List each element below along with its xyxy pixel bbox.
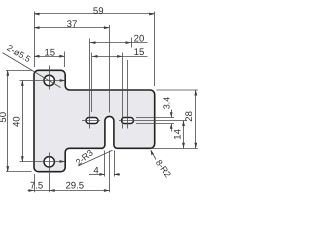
svg-text:14: 14 bbox=[172, 128, 183, 139]
ext line left slot pair a bbox=[89, 39, 91, 129]
dim line 15 right with tail bbox=[92, 56, 148, 58]
svg-text:20: 20 bbox=[134, 34, 145, 45]
arrow leader tick bbox=[60, 79, 66, 82]
dim line 59 bbox=[34, 13, 155, 15]
arrows 4 (outside inward) bbox=[99, 173, 105, 176]
dim line 14 bbox=[183, 121, 185, 149]
ext line 50 bottom bbox=[6, 171, 32, 173]
dim line 28 bbox=[195, 90, 197, 148]
arrows 50 bbox=[6, 70, 9, 76]
dim line 37 bbox=[34, 27, 110, 29]
dim line 3.4 lower bbox=[171, 124, 173, 132]
hole bottom 5.5 bbox=[44, 157, 54, 167]
arrows 15 right bbox=[92, 55, 98, 58]
svg-text:37: 37 bbox=[67, 19, 78, 30]
ext line notch left edge bottom bbox=[104, 151, 106, 177]
slot right ext bottom h bbox=[136, 123, 174, 125]
svg-text:50: 50 bbox=[0, 112, 9, 123]
arrows 40 bbox=[21, 80, 24, 86]
svg-text:8-R2: 8-R2 bbox=[154, 158, 173, 179]
centerline top hole v bbox=[49, 66, 51, 90]
centerline bottom hole v + ext down bbox=[49, 153, 51, 193]
ext line notch center vertical bbox=[109, 25, 111, 113]
svg-text:29.5: 29.5 bbox=[65, 181, 84, 192]
arrows 59 bbox=[34, 13, 40, 16]
svg-text:3.4: 3.4 bbox=[161, 97, 171, 109]
slot right bbox=[122, 118, 134, 124]
ext line 15 left bbox=[64, 52, 66, 68]
ext line band top right bbox=[157, 89, 198, 91]
slot right centerline h long bbox=[119, 120, 186, 122]
leader 2-R3 bbox=[78, 150, 113, 166]
dim line 4 right segment bbox=[114, 174, 120, 176]
hole top 5.5 bbox=[44, 75, 54, 85]
arrows 37 bbox=[34, 26, 40, 29]
centerline right slot vertical bbox=[127, 60, 129, 129]
svg-text:59: 59 bbox=[93, 6, 104, 17]
arrows 20 bbox=[90, 41, 96, 44]
svg-text:40: 40 bbox=[11, 116, 22, 127]
svg-text:2-R3: 2-R3 bbox=[74, 148, 95, 168]
ext line left slot pair b bbox=[91, 53, 93, 113]
part body (bracket outline) bbox=[34, 70, 155, 171]
ext line part right top bbox=[154, 12, 156, 87]
ext line part left top bbox=[34, 12, 36, 68]
leader 8-R2 bbox=[151, 150, 156, 159]
dim line 40 bbox=[22, 80, 24, 162]
ext line 50 top bbox=[6, 70, 32, 72]
svg-text:15: 15 bbox=[134, 47, 145, 58]
svg-text:4: 4 bbox=[93, 165, 99, 176]
ext line 40 top (hole centerline h) bbox=[20, 80, 66, 82]
ext line band bottom right bbox=[152, 148, 198, 150]
dim line 7.5 29.5 bbox=[28, 190, 110, 192]
arrows 15 left bbox=[34, 55, 40, 58]
ext line part left bottom bbox=[34, 174, 36, 192]
ext line right slot 15 bbox=[122, 53, 124, 129]
svg-text:7.5: 7.5 bbox=[30, 181, 43, 192]
arrows 7.5 / 29.5 bbox=[29, 189, 35, 192]
slot left centerline h bbox=[82, 120, 100, 122]
ext line notch center bottom bbox=[109, 151, 111, 193]
dim line 3.4 upper (outside arrows) bbox=[171, 110, 173, 118]
dim line 4 left segment bbox=[89, 174, 105, 176]
leader 2-phi5.5 bbox=[3, 53, 61, 88]
slot left bbox=[86, 118, 98, 124]
dim line 50 bbox=[7, 70, 9, 171]
ext stub 20 right bbox=[131, 38, 133, 48]
dim line 20 with tail bbox=[90, 42, 148, 44]
ext line 40 bottom (hole centerline h) bbox=[20, 161, 65, 163]
arrows 14 bbox=[182, 121, 185, 127]
arrows 3.4 (outside inward) bbox=[170, 112, 173, 117]
svg-text:2-ø5.5: 2-ø5.5 bbox=[5, 43, 32, 65]
dim line 15 left bbox=[34, 56, 65, 58]
arrow leader 8-R2 tip bbox=[151, 150, 154, 156]
arrows 28 bbox=[194, 90, 197, 96]
svg-text:15: 15 bbox=[44, 47, 55, 58]
svg-text:28: 28 bbox=[184, 111, 195, 122]
slot right ext top h bbox=[136, 117, 174, 119]
ext line notch right edge bottom bbox=[114, 151, 116, 177]
